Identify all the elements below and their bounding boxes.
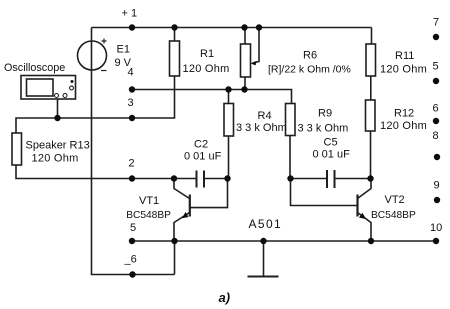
svg-text:7: 7: [433, 17, 439, 29]
svg-text:3 3 k Ohm: 3 3 k Ohm: [298, 122, 349, 134]
svg-text:R6: R6: [303, 49, 317, 61]
svg-text:BC548BP: BC548BP: [126, 210, 171, 221]
svg-text:[R]/22 k Ohm /0%: [R]/22 k Ohm /0%: [268, 63, 351, 75]
svg-text:5: 5: [433, 61, 439, 73]
svg-text:120 Ohm: 120 Ohm: [380, 63, 427, 75]
svg-text:VT1: VT1: [139, 195, 159, 207]
svg-text:R1: R1: [200, 48, 214, 60]
svg-text:9: 9: [434, 180, 440, 192]
svg-text:Speaker R13: Speaker R13: [26, 140, 90, 152]
svg-text:120 Ohm: 120 Ohm: [32, 153, 79, 165]
svg-text:A501: A501: [249, 217, 283, 231]
svg-text:BC548BP: BC548BP: [371, 210, 416, 221]
svg-text:5: 5: [130, 222, 136, 234]
svg-text:R9: R9: [318, 107, 332, 119]
svg-text:4: 4: [128, 67, 134, 79]
svg-text:R12: R12: [394, 108, 414, 120]
svg-text:+ 1: + 1: [122, 7, 138, 19]
svg-text:a): a): [219, 290, 231, 305]
svg-text:C2: C2: [194, 139, 208, 151]
svg-text:E1: E1: [117, 44, 130, 56]
svg-text:120 Ohm: 120 Ohm: [183, 63, 230, 75]
svg-text:10: 10: [430, 222, 442, 234]
svg-text:VT2: VT2: [385, 194, 405, 206]
svg-text:8: 8: [433, 130, 439, 142]
svg-text:R4: R4: [258, 110, 272, 122]
svg-text:R11: R11: [395, 50, 414, 62]
svg-text:3: 3: [128, 97, 134, 109]
svg-text:6: 6: [433, 103, 439, 115]
svg-text:_6: _6: [124, 254, 137, 266]
svg-text:120 Ohm: 120 Ohm: [380, 120, 427, 132]
svg-text:0 01 uF: 0 01 uF: [313, 149, 351, 161]
svg-text:0 01 uF: 0 01 uF: [184, 151, 222, 163]
svg-text:C5: C5: [324, 136, 338, 148]
svg-text:2: 2: [129, 158, 135, 170]
svg-text:3 3 k Ohm: 3 3 k Ohm: [236, 122, 287, 134]
svg-text:Oscilloscope: Oscilloscope: [4, 62, 65, 74]
